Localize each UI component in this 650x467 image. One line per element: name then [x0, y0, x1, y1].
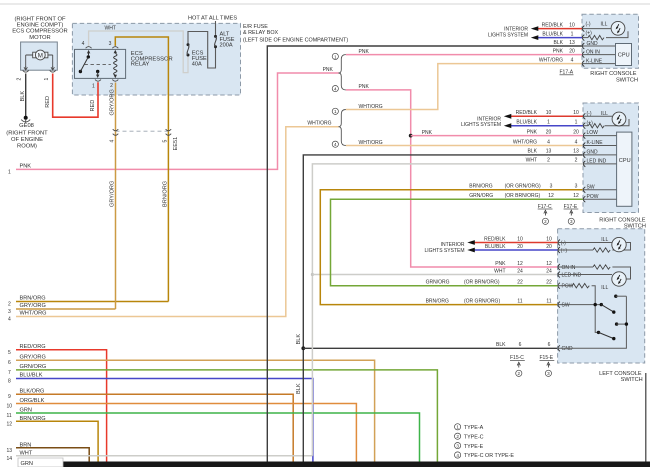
svg-text:12: 12 — [517, 261, 523, 267]
svg-text:2: 2 — [547, 158, 550, 164]
wire BLK block1 GND trunk down — [267, 46, 582, 462]
svg-text:SWITCH: SWITCH — [621, 377, 643, 383]
relay pin 3 arc + number — [112, 47, 118, 49]
relay switch blade — [79, 70, 82, 73]
svg-text:4: 4 — [334, 142, 337, 147]
svg-text:20: 20 — [517, 244, 523, 250]
svg-text:LED IND: LED IND — [562, 272, 582, 278]
svg-text:RED/BLK: RED/BLK — [542, 22, 564, 28]
svg-text:10: 10 — [546, 110, 552, 116]
svg-text:WHT/ORG: WHT/ORG — [513, 139, 537, 145]
motor pin 1 arrow+arc — [51, 66, 54, 70]
wire from relay pin2 GRY/ORG down — [115, 83, 117, 310]
block2 CPU box — [617, 132, 632, 206]
block1 pin arcs — [582, 26, 584, 67]
block3 resistor on ON IN — [593, 265, 610, 269]
block3 switch cluster — [594, 303, 597, 306]
svg-text:BLK: BLK — [296, 334, 302, 345]
svg-text:4: 4 — [456, 453, 459, 458]
svg-text:RED: RED — [45, 96, 51, 108]
right console switch box A (dashed) — [582, 14, 639, 68]
svg-text:24: 24 — [517, 268, 523, 274]
svg-text:LIGHTS SYSTEM: LIGHTS SYSTEM — [424, 248, 464, 254]
svg-text:GRY/ORG: GRY/ORG — [110, 89, 116, 115]
svg-text:20: 20 — [573, 129, 579, 135]
ECS compressor relay box — [75, 49, 126, 78]
svg-text:(OR BRN/ORG): (OR BRN/ORG) — [464, 280, 500, 286]
svg-text:10: 10 — [569, 22, 575, 28]
legend circled 2 TYPE-C — [455, 433, 461, 439]
svg-text:3: 3 — [570, 219, 573, 224]
svg-text:2: 2 — [544, 219, 547, 224]
ECS compressor motor box — [21, 42, 58, 70]
wire ECS fuse to ALT fuse — [188, 32, 216, 69]
wire BRN/ORG block2 SW down to block3 SW — [320, 190, 583, 305]
svg-text:PNK: PNK — [553, 48, 564, 54]
svg-text:3: 3 — [109, 41, 112, 47]
block1 wire RED/BLK with arrow to interior lights — [538, 28, 583, 30]
svg-text:3: 3 — [456, 444, 459, 449]
svg-text:11: 11 — [546, 298, 551, 304]
wire BLK block2 GND down with junction to block3 GND — [303, 155, 583, 462]
relay pin 2 arc + number — [112, 80, 118, 82]
svg-text:14: 14 — [7, 456, 13, 462]
svg-text:TYPE-C: TYPE-C — [464, 434, 484, 440]
ground G208 dot and symbol — [24, 116, 28, 120]
svg-text:WHT: WHT — [105, 25, 116, 31]
svg-text:HOT AT ALL TIMES: HOT AT ALL TIMES — [188, 16, 237, 22]
svg-text:20: 20 — [569, 48, 575, 54]
svg-text:3: 3 — [575, 184, 578, 190]
svg-text:WHT: WHT — [526, 158, 537, 164]
circled 1 (pink branch) — [332, 53, 338, 59]
svg-text:1: 1 — [92, 84, 95, 90]
svg-text:MOTOR: MOTOR — [29, 35, 50, 41]
svg-text:22: 22 — [546, 280, 552, 286]
svg-text:GRN: GRN — [21, 461, 33, 467]
connector EE51 dashed line — [116, 130, 169, 132]
svg-text:LEFT CONSOLE: LEFT CONSOLE — [599, 371, 642, 377]
wire RED motor pin1 to relay pin1 — [53, 74, 98, 118]
svg-text:BLK: BLK — [20, 91, 26, 102]
svg-text:CPU: CPU — [619, 158, 631, 164]
block2 internal labels — [587, 111, 607, 200]
svg-text:K-LINE: K-LINE — [587, 140, 604, 146]
svg-text:20: 20 — [546, 129, 552, 135]
svg-text:4: 4 — [547, 139, 550, 145]
svg-text:BLK: BLK — [496, 342, 506, 348]
F17-E up arrow + circled 3 — [570, 210, 573, 215]
relay coil — [114, 54, 117, 76]
svg-text:1: 1 — [8, 169, 11, 175]
pink brace — [339, 55, 346, 90]
F15-E up arrow + circled 3 — [547, 362, 550, 367]
svg-text:POW: POW — [587, 194, 599, 200]
svg-text:10: 10 — [7, 404, 13, 410]
legend circled 1 TYPE-A — [455, 424, 461, 430]
svg-text:12: 12 — [573, 193, 579, 199]
tan brace — [339, 110, 346, 146]
wire WHT block2 LED IND down to wire 14, junction to block3 LED IND — [312, 164, 583, 456]
left console switch box (dashed) — [558, 229, 645, 363]
svg-text:200A: 200A — [220, 42, 233, 48]
svg-text:2: 2 — [110, 83, 113, 89]
svg-text:10: 10 — [546, 236, 552, 242]
svg-text:GE08: GE08 — [19, 123, 34, 129]
svg-text:13: 13 — [569, 40, 575, 46]
tooltip box GRN (wire 15) — [18, 458, 63, 467]
svg-text:2: 2 — [8, 302, 11, 308]
svg-text:22: 22 — [517, 280, 523, 286]
right console switch box B (dashed) — [583, 103, 639, 213]
svg-text:3: 3 — [550, 184, 553, 190]
svg-text:1: 1 — [547, 120, 550, 126]
svg-text:5: 5 — [162, 140, 168, 143]
svg-text:4: 4 — [82, 41, 85, 47]
svg-text:RED/BLK: RED/BLK — [516, 110, 538, 116]
svg-text:5: 5 — [8, 350, 11, 356]
svg-text:& RELAY BOX: & RELAY BOX — [243, 30, 279, 36]
wire ALT fuse to HOT AT ALL TIMES — [215, 21, 217, 35]
junction dot BLK to block3 GND — [301, 346, 305, 350]
block1 wire BLU/BLK with arrow to interior lights — [538, 37, 583, 39]
block2 resistor on (+) — [588, 124, 604, 128]
block1 internal labels — [586, 21, 603, 64]
circled 4 (tan branch) — [332, 141, 338, 147]
svg-text:ROOM): ROOM) — [17, 143, 37, 149]
ALT fuse 200A — [214, 35, 217, 38]
svg-text:2: 2 — [518, 371, 521, 376]
wire GRN/ORG block2 POW down to block3 POW — [331, 199, 584, 286]
svg-text:PNK: PNK — [527, 129, 538, 135]
block1 internal row lines — [582, 29, 628, 64]
relay mechanical dashed link — [85, 63, 111, 65]
svg-text:9: 9 — [8, 394, 11, 400]
svg-text:PNK: PNK — [323, 67, 334, 73]
right edge frame line below box3 — [645, 373, 647, 462]
svg-text:ILL: ILL — [601, 285, 608, 291]
block2 pin arcs — [583, 113, 585, 202]
circled 1 (tan branch) — [332, 108, 338, 114]
svg-text:20: 20 — [546, 244, 552, 250]
block3 internal labels — [561, 240, 582, 352]
svg-text:BLK: BLK — [554, 40, 564, 46]
svg-text:13: 13 — [546, 149, 552, 155]
svg-text:(-): (-) — [561, 240, 566, 246]
svg-text:LED IND: LED IND — [587, 159, 607, 165]
svg-text:ECS COMPRESSOR: ECS COMPRESSOR — [12, 28, 67, 34]
svg-text:LIGHTS SYSTEM: LIGHTS SYSTEM — [461, 122, 501, 128]
wire BLK motor pin2 to ground — [25, 74, 27, 118]
svg-text:4: 4 — [109, 140, 115, 143]
block3 internal row lines — [558, 243, 631, 349]
svg-text:ILL: ILL — [601, 111, 608, 117]
svg-text:POW: POW — [562, 284, 574, 290]
svg-text:13: 13 — [573, 149, 579, 155]
block3 wire RED/BLK with arrow — [474, 242, 558, 244]
block3 pin arcs — [558, 240, 560, 352]
svg-text:BLU/BLK: BLU/BLK — [516, 120, 537, 126]
block3 wire BLU/BLK with arrow — [474, 249, 558, 251]
svg-text:1: 1 — [571, 31, 574, 37]
svg-text:RIGHT CONSOLE: RIGHT CONSOLE — [590, 71, 636, 77]
EE51 pin 4 arcs — [113, 129, 119, 135]
svg-text:M: M — [38, 52, 43, 59]
label: ECS COMPRESSOR MOTOR header — [12, 16, 67, 41]
motor pin 2 arrow+arc — [24, 66, 27, 70]
svg-text:GND: GND — [562, 346, 574, 352]
svg-text:ILL: ILL — [601, 237, 608, 243]
svg-text:GRN/ORG: GRN/ORG — [426, 280, 450, 286]
legend circled 3 TYPE-E — [455, 443, 461, 449]
F15-C up arrow + circled 2 — [517, 362, 520, 367]
svg-text:3: 3 — [8, 309, 11, 315]
svg-text:BLK: BLK — [528, 149, 538, 155]
svg-text:LIGHTS SYSTEM: LIGHTS SYSTEM — [488, 33, 528, 39]
svg-text:RED: RED — [90, 100, 96, 112]
svg-text:10: 10 — [573, 110, 579, 116]
ECS fuse 40A — [187, 43, 190, 46]
svg-text:2: 2 — [456, 434, 459, 439]
svg-text:LOW: LOW — [587, 130, 599, 136]
svg-text:(OR GRN/ORG): (OR GRN/ORG) — [505, 184, 541, 190]
svg-text:8: 8 — [8, 379, 11, 385]
block3 resistor on POW — [572, 284, 589, 288]
svg-text:BRN/ORG: BRN/ORG — [163, 181, 169, 207]
relay pin 4 arc + number — [86, 47, 92, 49]
label: GE08 ground name — [6, 123, 48, 149]
svg-text:6: 6 — [548, 342, 551, 348]
svg-text:1: 1 — [334, 109, 337, 114]
block2 internal row lines — [583, 116, 629, 199]
svg-text:(LEFT SIDE OF ENGINE COMPARTME: (LEFT SIDE OF ENGINE COMPARTMENT) — [243, 37, 348, 43]
svg-text:ON IN: ON IN — [562, 265, 576, 271]
svg-text:ILL: ILL — [601, 22, 608, 28]
block1 resistor on (+) — [588, 35, 604, 39]
svg-text:7: 7 — [8, 370, 11, 376]
svg-text:PNK: PNK — [495, 261, 506, 267]
svg-text:EE51: EE51 — [173, 137, 179, 151]
svg-text:GRY/ORG: GRY/ORG — [110, 181, 116, 207]
svg-text:(OR BRN/ORG): (OR BRN/ORG) — [505, 193, 541, 199]
svg-text:SW: SW — [587, 184, 595, 190]
svg-text:WHT/ORG: WHT/ORG — [307, 121, 331, 127]
svg-text:4: 4 — [8, 317, 11, 323]
legend circled 4 TYPE-C OR TYPE-E — [455, 452, 461, 458]
svg-text:6: 6 — [8, 360, 11, 366]
svg-text:GND: GND — [587, 150, 599, 156]
svg-text:WHT/ORG: WHT/ORG — [539, 57, 563, 63]
EE51 pin 5 arcs — [166, 129, 172, 135]
svg-text:(OR GRN/ORG): (OR GRN/ORG) — [464, 298, 500, 304]
relay pin 1 arc + number — [95, 80, 101, 82]
svg-text:(+): (+) — [561, 248, 568, 254]
wire WHT relay pin4 to ECS fuse — [89, 31, 188, 73]
svg-text:4: 4 — [575, 139, 578, 145]
svg-text:24: 24 — [546, 268, 552, 274]
svg-text:BLU/BLK: BLU/BLK — [542, 31, 563, 37]
svg-text:1: 1 — [456, 425, 459, 430]
svg-text:SW: SW — [562, 302, 570, 308]
svg-text:OF ENGINE: OF ENGINE — [11, 137, 43, 143]
svg-text:2: 2 — [575, 158, 578, 164]
E/R fuse & relay box (dashed enclosure) — [72, 23, 240, 95]
motor symbol M — [26, 50, 53, 67]
svg-text:RELAY: RELAY — [131, 62, 150, 68]
svg-text:GRN/ORG: GRN/ORG — [469, 193, 493, 199]
block3 resistor on (+) — [593, 248, 610, 252]
svg-text:12: 12 — [546, 261, 552, 267]
svg-text:K-LINE: K-LINE — [586, 59, 603, 65]
svg-text:(RIGHT FRONT: (RIGHT FRONT — [6, 130, 48, 136]
svg-text:4: 4 — [571, 57, 574, 63]
svg-text:SWITCH: SWITCH — [616, 77, 638, 83]
svg-text:TYPE-E: TYPE-E — [464, 444, 484, 450]
svg-text:10: 10 — [517, 236, 523, 242]
svg-text:GND: GND — [587, 41, 599, 47]
svg-text:TYPE-C OR TYPE-E: TYPE-C OR TYPE-E — [464, 453, 515, 459]
svg-text:TYPE-A: TYPE-A — [464, 425, 484, 431]
relay pin1 contact dot + arrow — [96, 70, 99, 73]
svg-text:(-): (-) — [586, 21, 591, 27]
svg-text:RED/BLK: RED/BLK — [484, 236, 506, 242]
block2 wire BLU/BLK with arrow — [511, 125, 584, 127]
svg-text:BLU/BLK: BLU/BLK — [485, 244, 506, 250]
svg-text:11: 11 — [7, 413, 12, 419]
svg-text:(-): (-) — [587, 111, 592, 117]
block2 wire RED/BLK with arrow — [511, 115, 584, 117]
svg-text:2: 2 — [17, 78, 23, 81]
svg-text:ON IN: ON IN — [586, 50, 600, 56]
svg-text:13: 13 — [7, 448, 13, 454]
svg-text:12: 12 — [548, 193, 554, 199]
block1 CPU box — [616, 44, 632, 66]
svg-text:6: 6 — [519, 342, 522, 348]
svg-text:1: 1 — [334, 54, 337, 59]
svg-text:WHT: WHT — [494, 268, 505, 274]
wire from relay pin3 BRN/ORG up over and down — [115, 37, 168, 302]
svg-text:BRN/ORG: BRN/ORG — [469, 184, 492, 190]
svg-text:1: 1 — [575, 120, 578, 126]
top window border line — [0, 3, 650, 5]
svg-text:4: 4 — [334, 87, 337, 92]
pink junction dot — [409, 134, 413, 138]
svg-text:BLK: BLK — [296, 383, 302, 394]
F17-C up arrow + circled 2 — [544, 210, 547, 215]
svg-text:1: 1 — [44, 78, 50, 81]
svg-text:40A: 40A — [192, 62, 202, 68]
svg-text:BRN/ORG: BRN/ORG — [426, 298, 449, 304]
bottom black bar — [48, 462, 650, 467]
svg-text:11: 11 — [517, 298, 522, 304]
circled 4 (pink branch) — [332, 86, 338, 92]
svg-text:CPU: CPU — [618, 53, 630, 59]
svg-text:3: 3 — [547, 371, 550, 376]
svg-text:12: 12 — [7, 421, 13, 427]
